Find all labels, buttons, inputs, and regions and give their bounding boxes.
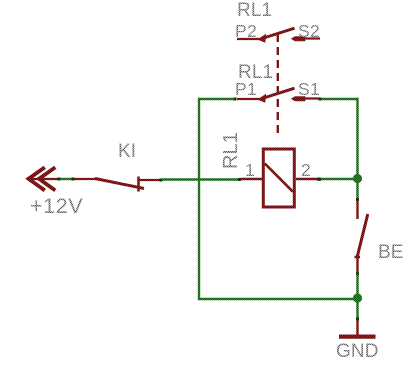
switch KI	[74, 177, 160, 192]
wire junction B to GND	[356, 301, 358, 318]
svg-text:S1: S1	[298, 79, 320, 99]
wire right vertical	[356, 98, 358, 198]
wire S1 to top-right corner	[321, 98, 359, 100]
svg-text:S2: S2	[298, 21, 320, 41]
pin dot	[356, 198, 359, 201]
pin dot	[356, 318, 359, 321]
pin dot	[234, 98, 237, 101]
pin dot	[58, 178, 61, 181]
relay coil RL1	[241, 149, 319, 207]
svg-text:+12V: +12V	[30, 194, 83, 218]
wire +12V to KI	[60, 178, 72, 180]
wire BE to junction B	[356, 274, 358, 295]
svg-text:2: 2	[301, 160, 311, 180]
svg-text:GND: GND	[336, 341, 379, 362]
svg-text:P1: P1	[235, 79, 257, 99]
svg-text:P2: P2	[235, 21, 257, 41]
wire bottom horizontal	[198, 298, 358, 300]
wire box top-left to P1	[199, 98, 234, 100]
pin dot	[356, 273, 359, 276]
junction dot B	[353, 293, 362, 302]
contact RL1 P1/S1	[237, 88, 320, 102]
pin dot	[238, 178, 241, 181]
ground GND	[339, 320, 376, 337]
svg-text:RL1: RL1	[237, 0, 272, 21]
dashed link line	[277, 34, 279, 136]
supply symbol +12V	[29, 167, 59, 190]
pin dot	[319, 98, 322, 101]
pin dot	[318, 178, 321, 181]
svg-text:BE: BE	[378, 242, 404, 263]
switch BE	[355, 200, 368, 273]
pin dot	[160, 179, 163, 182]
wire coil pin 2 to junction A	[321, 178, 356, 180]
svg-text:KI: KI	[118, 141, 136, 162]
wire KI to coil pin 1	[162, 178, 238, 180]
svg-text:1: 1	[245, 160, 255, 180]
pin dot	[72, 178, 75, 181]
wire left vertical	[198, 98, 200, 300]
contact RL1 P2/S2	[237, 28, 320, 42]
svg-text:RL1: RL1	[220, 132, 242, 169]
junction dot A	[353, 174, 362, 183]
